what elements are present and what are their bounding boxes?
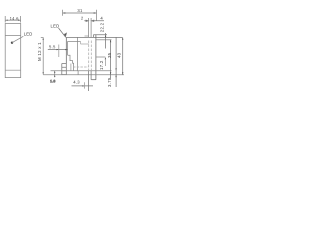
tab boxes bbox=[62, 64, 67, 75]
M12x1 dim line bbox=[41, 38, 44, 75]
5.5 arrows bbox=[57, 49, 68, 50]
left view: dim arrows 14.6 bbox=[5, 20, 20, 21]
sleeve wall bbox=[77, 38, 79, 71]
svg-text:5.5: 5.5 bbox=[49, 44, 56, 49]
bezel front face bbox=[95, 35, 97, 80]
left view: LED dot bbox=[11, 42, 13, 44]
svg-text:M 12 x 1: M 12 x 1 bbox=[37, 42, 42, 61]
dim vertical x122.7 bbox=[122, 37, 124, 74]
dashed vertical bbox=[89, 41, 92, 71]
left view: inner line top bbox=[5, 35, 21, 37]
small dim vertical x54.7 bbox=[54, 71, 56, 78]
long line y74.7 bbox=[43, 74, 124, 76]
left view: dim 14.6 ext lines bbox=[5, 16, 20, 23]
right view: 31 ext lines bbox=[63, 10, 97, 21]
left view: LED leader bbox=[12, 36, 23, 42]
left view: dim line 14.6 bbox=[5, 19, 20, 21]
svg-text:1.6: 1.6 bbox=[50, 79, 55, 83]
svg-text:3.75: 3.75 bbox=[107, 77, 112, 87]
faint dim continuation bbox=[104, 60, 106, 66]
dim vertical x116.1 bbox=[115, 37, 117, 87]
right view: 31 dim arrows bbox=[63, 12, 96, 13]
4.3 ext line bbox=[84, 82, 86, 88]
svg-text:4.3: 4.3 bbox=[73, 80, 80, 85]
svg-text:43: 43 bbox=[116, 52, 121, 58]
body left edge bbox=[65, 38, 67, 64]
dim vertical x105.6 bbox=[105, 33, 107, 49]
ext y39.8 bbox=[96, 39, 112, 41]
step segment bbox=[85, 35, 89, 37]
long line y70.7 bbox=[51, 70, 112, 72]
5.5 ext line bbox=[58, 45, 60, 58]
dim vertical x110.6 bbox=[110, 40, 112, 78]
body top edge bbox=[66, 36, 122, 38]
svg-text:2: 2 bbox=[81, 16, 84, 21]
svg-text:17.2: 17.2 bbox=[99, 60, 104, 70]
small vertical x78 bbox=[77, 71, 79, 75]
left view: body rectangle bbox=[5, 24, 21, 78]
ext y57 bbox=[96, 56, 105, 58]
left view: inner line bottom bbox=[5, 69, 21, 71]
5.5 dim line bbox=[48, 49, 68, 51]
panel lines top bbox=[89, 18, 92, 37]
bezel top segment bbox=[93, 35, 107, 38]
inner vertical bbox=[70, 64, 72, 71]
svg-text:4: 4 bbox=[100, 16, 103, 21]
small inner step bbox=[81, 41, 89, 44]
svg-text:LED: LED bbox=[24, 32, 33, 37]
svg-text:35: 35 bbox=[107, 52, 112, 58]
dashed centerline bbox=[73, 66, 89, 68]
right view: 4 dim arrow bbox=[92, 20, 105, 21]
bezel bottom bbox=[91, 79, 96, 81]
panel lines bottom bbox=[89, 71, 92, 91]
svg-text:LED: LED bbox=[51, 24, 60, 29]
svg-text:31: 31 bbox=[77, 8, 83, 13]
svg-text:14.6: 14.6 bbox=[10, 16, 20, 21]
staircase bbox=[68, 55, 74, 70]
inner top line bbox=[68, 41, 81, 55]
right view: 31 dim line bbox=[63, 12, 96, 14]
svg-text:22.2: 22.2 bbox=[100, 22, 105, 32]
right view: 2 dim arrow bbox=[84, 20, 88, 21]
4.3 dim line bbox=[72, 85, 94, 87]
LED leader right view bbox=[59, 28, 67, 37]
